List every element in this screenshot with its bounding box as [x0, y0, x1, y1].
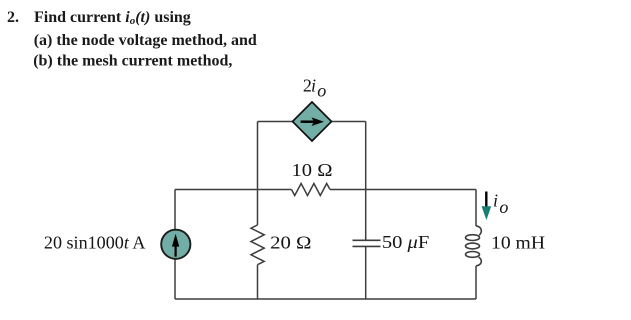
inductor L 10mH (coil) — [466, 226, 482, 266]
wire bottom rail — [175, 298, 476, 300]
wire 20-ohm branch upper — [257, 190, 259, 225]
wire right vertical upper — [475, 190, 477, 227]
dependent current source diamond — [293, 102, 332, 141]
svg-text:(b) the mesh current method,: (b) the mesh current method, — [33, 52, 232, 69]
svg-text:10 mH: 10 mH — [491, 233, 545, 253]
wire capacitor branch lower — [365, 246, 367, 299]
wire top rail right segment — [330, 189, 476, 191]
wire left vertical — [174, 190, 176, 300]
resistor R 20 ohm (vertical zigzag) — [251, 225, 264, 265]
svg-text:i: i — [493, 190, 498, 210]
wire right vertical of dependent-source loop — [365, 122, 367, 190]
svg-text:20 sin1000t A: 20 sin1000t A — [44, 232, 146, 252]
svg-text:i: i — [311, 76, 316, 96]
wire 20-ohm branch lower — [257, 265, 259, 299]
wire top-left branch (left vertical of dependent-source loop) — [257, 122, 259, 190]
capacitor C 50uF plates — [353, 240, 381, 246]
resistor R 10 ohm (horizontal zigzag) — [292, 184, 331, 196]
svg-text:10 Ω: 10 Ω — [292, 160, 333, 180]
svg-text:Find current io(t) using: Find current io(t) using — [34, 9, 191, 27]
svg-text:o: o — [499, 197, 508, 217]
current io arrow (black shaft, teal head) — [482, 192, 492, 221]
svg-text:o: o — [317, 81, 326, 101]
independent current source 20sin1000t A (circle with up arrow) — [161, 230, 190, 259]
svg-text:50 μF: 50 μF — [382, 232, 429, 252]
wire right vertical lower — [475, 266, 477, 299]
svg-text:20 Ω: 20 Ω — [270, 232, 311, 252]
svg-text:(a) the node voltage method, a: (a) the node voltage method, and — [34, 32, 257, 49]
wire top rail left segment — [175, 189, 292, 191]
wire dependent source branch horizontal — [258, 121, 366, 123]
wire capacitor branch upper — [365, 190, 367, 241]
svg-text:2.: 2. — [7, 9, 19, 26]
